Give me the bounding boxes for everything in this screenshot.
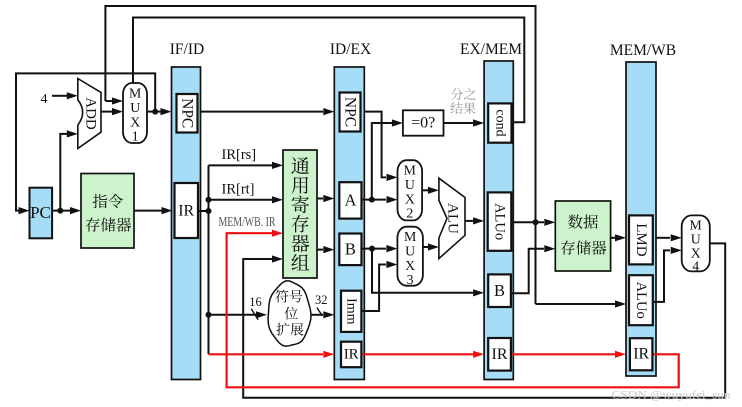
- ID/EX NPC latch: [340, 93, 361, 132]
- zero test =0?: [403, 110, 444, 135]
- svg-text:EX/MEM: EX/MEM: [460, 41, 522, 58]
- wire IF/ID.NPC to ID/EX.NPC: [201, 111, 324, 113]
- svg-text:PC: PC: [30, 203, 51, 222]
- svg-text:U: U: [130, 100, 140, 115]
- EX/MEM B latch: [488, 274, 511, 307]
- svg-text:ADD: ADD: [83, 97, 99, 130]
- wire MEM/WB.ALUo to MUX4: [653, 250, 670, 302]
- svg-text:IR: IR: [344, 346, 359, 362]
- wire EX/MEM.ALUo to MEM/WB.ALUo: [536, 303, 616, 305]
- junction IR output: [206, 208, 212, 214]
- label data memory text line2: [561, 240, 606, 254]
- ID/EX A latch: [339, 182, 361, 218]
- svg-text:M: M: [690, 218, 702, 233]
- register file: [283, 150, 317, 278]
- junction MUX1 output / PC loop: [152, 109, 158, 115]
- svg-text:IR: IR: [178, 202, 194, 219]
- sign extender: [268, 281, 311, 346]
- label MUX2 text: [404, 163, 416, 221]
- svg-text:A: A: [344, 191, 356, 210]
- ID/EX IR latch: [341, 342, 361, 368]
- svg-text:MEM/WB. IR: MEM/WB. IR: [219, 214, 276, 229]
- junction IR immediate branch: [206, 312, 212, 318]
- MEM/WB ALUo latch: [629, 275, 653, 325]
- svg-text:X: X: [405, 258, 415, 273]
- junction PC output: [57, 208, 63, 214]
- wire MUX1 output to IF/ID.NPC: [147, 111, 161, 113]
- wire IR[rs] to register file: [209, 164, 273, 166]
- svg-text:4: 4: [41, 92, 48, 107]
- multiplexer MUX3: [397, 227, 423, 286]
- ALU: [439, 178, 465, 258]
- label sign extend text line3: [276, 323, 303, 336]
- wire MEM/WB.LMD to MUX4: [656, 237, 670, 239]
- label MUX3 text: [404, 229, 416, 287]
- wire ALU output to EX/MEM.ALUo: [465, 220, 473, 222]
- wire sign extend to ID/EX.Imm: [312, 314, 324, 316]
- bus width tick 16: [251, 309, 258, 320]
- svg-text:B: B: [345, 240, 356, 259]
- label MUX1 text: [129, 86, 141, 144]
- svg-text:cond: cond: [492, 109, 507, 136]
- wire IF/ID.IR output bus vertical: [198, 165, 209, 354]
- svg-text:IR: IR: [633, 346, 649, 363]
- svg-text:U: U: [405, 177, 415, 192]
- wire IR to ID/EX.IR (red): [209, 353, 324, 355]
- wire ALUo feedback to MUX1 (top outer): [105, 6, 535, 304]
- label data memory text line1: [568, 215, 598, 229]
- wire data memory to MEM/WB.LMD: [611, 237, 615, 239]
- pipeline register IF/ID: [172, 67, 201, 380]
- svg-text:32: 32: [315, 293, 328, 307]
- pipeline register ID/EX: [334, 67, 364, 380]
- label sign extend text line2: [285, 307, 298, 320]
- svg-text:B: B: [494, 281, 505, 300]
- svg-text:1: 1: [132, 129, 139, 144]
- wire MUX3 to ALU: [423, 246, 428, 248]
- label register file text: [291, 157, 309, 270]
- multiplexer MUX1: [123, 83, 147, 143]
- wire MEM/WB.IR writeback to register file (red): [227, 233, 679, 387]
- svg-text:M: M: [404, 163, 416, 178]
- wire ID/EX.A to MUX2: [362, 199, 387, 201]
- wire IR to sign extend: [209, 314, 257, 316]
- wire ID/EX.NPC to MUX2 upper: [364, 112, 386, 178]
- wire register file A output to ID/EX.A: [317, 198, 323, 200]
- MEM/WB IR latch: [630, 338, 653, 370]
- wire zero test to EX/MEM.cond: [444, 122, 474, 124]
- svg-text:3: 3: [407, 272, 414, 287]
- junction A output: [369, 197, 375, 203]
- MEM/WB LMD latch: [629, 215, 653, 264]
- junction ALUo feedback: [533, 219, 539, 225]
- IF/ID IR latch: [175, 183, 199, 238]
- svg-text:IR: IR: [492, 346, 508, 363]
- wire IR[rt] to register file: [209, 199, 273, 201]
- wire MUX4 writeback to register file: [243, 243, 725, 397]
- svg-text:ALUo: ALUo: [492, 203, 508, 240]
- label MUX4 text: [690, 218, 702, 274]
- svg-text:M: M: [129, 86, 141, 101]
- junction B output: [369, 246, 375, 252]
- svg-text:NPC: NPC: [342, 97, 359, 127]
- wire ID/EX.Imm to MUX3 lower: [361, 265, 386, 312]
- svg-text:ID/EX: ID/EX: [330, 41, 371, 58]
- wire register file B output to ID/EX.B: [317, 249, 323, 251]
- svg-text:X: X: [130, 115, 140, 130]
- label branch result text line1: [451, 88, 476, 100]
- IF/ID NPC latch: [177, 94, 198, 133]
- svg-text:X: X: [405, 192, 415, 207]
- instruction memory: [81, 174, 134, 249]
- label sign extend text line1: [275, 290, 302, 303]
- wire new PC loop: [16, 73, 155, 210]
- wire constant 4 into ADD: [52, 95, 67, 97]
- EX/MEM cond latch: [488, 103, 511, 142]
- wire ADD output to MUX1: [101, 111, 112, 113]
- svg-text:U: U: [405, 244, 415, 259]
- wire MUX2 to ALU: [422, 189, 428, 191]
- svg-text:IF/ID: IF/ID: [170, 41, 204, 58]
- svg-text:ALUo: ALUo: [633, 282, 649, 319]
- PC register: [30, 188, 53, 239]
- svg-text:Imm: Imm: [344, 298, 359, 325]
- wire B to EX/MEM.B: [372, 249, 473, 293]
- svg-text:U: U: [691, 232, 701, 247]
- wire ID/EX.B to MUX3: [362, 248, 387, 250]
- svg-text:IR[rt]: IR[rt]: [222, 182, 255, 198]
- multiplexer MUX2: [398, 160, 423, 220]
- wire A to zero test: [372, 123, 392, 200]
- data memory: [555, 201, 610, 271]
- wire instruction memory to IF/ID.IR: [134, 210, 163, 212]
- wire EX/MEM.ALUo to data memory: [511, 221, 544, 223]
- svg-text:16: 16: [249, 295, 262, 309]
- label instruction memory text line1: [93, 194, 123, 208]
- pipeline register EX/MEM: [484, 61, 513, 380]
- adder ADD: [78, 79, 101, 149]
- EX/MEM IR latch: [488, 338, 511, 371]
- svg-text:=0?: =0?: [411, 115, 435, 132]
- wire EX/MEM.IR to MEM/WB.IR (red): [511, 353, 615, 355]
- label instruction memory text line2: [86, 217, 131, 231]
- wire cond to MUX1 select (top inner): [133, 18, 524, 123]
- wire PC output to instruction memory: [52, 210, 70, 212]
- svg-text:ALU: ALU: [445, 203, 461, 234]
- ID/EX Imm latch: [341, 291, 361, 332]
- svg-text:NPC: NPC: [179, 98, 196, 128]
- wire into MUX1 upper input: [105, 100, 112, 102]
- svg-text:LMD: LMD: [633, 223, 649, 257]
- ID/EX B latch: [339, 234, 361, 266]
- pipeline register MEM/WB: [626, 62, 656, 376]
- svg-text:2: 2: [406, 206, 413, 221]
- svg-text:CSDN @wuyufei_sun: CSDN @wuyufei_sun: [612, 390, 731, 402]
- svg-text:4: 4: [692, 258, 699, 273]
- multiplexer MUX4: [682, 215, 710, 271]
- svg-text:IR[rs]: IR[rs]: [222, 147, 257, 163]
- svg-text:M: M: [404, 229, 416, 244]
- junction IR rt: [206, 197, 212, 203]
- bus width tick 32: [317, 308, 323, 316]
- wire ID/EX.IR to EX/MEM.IR (red): [361, 353, 473, 355]
- EX/MEM ALUo latch: [488, 192, 512, 250]
- svg-text:MEM/WB: MEM/WB: [610, 42, 676, 59]
- wire PC to ADD lower input: [60, 134, 67, 211]
- wire EX/MEM.B to data memory: [511, 249, 544, 294]
- label branch result text line2: [450, 102, 475, 114]
